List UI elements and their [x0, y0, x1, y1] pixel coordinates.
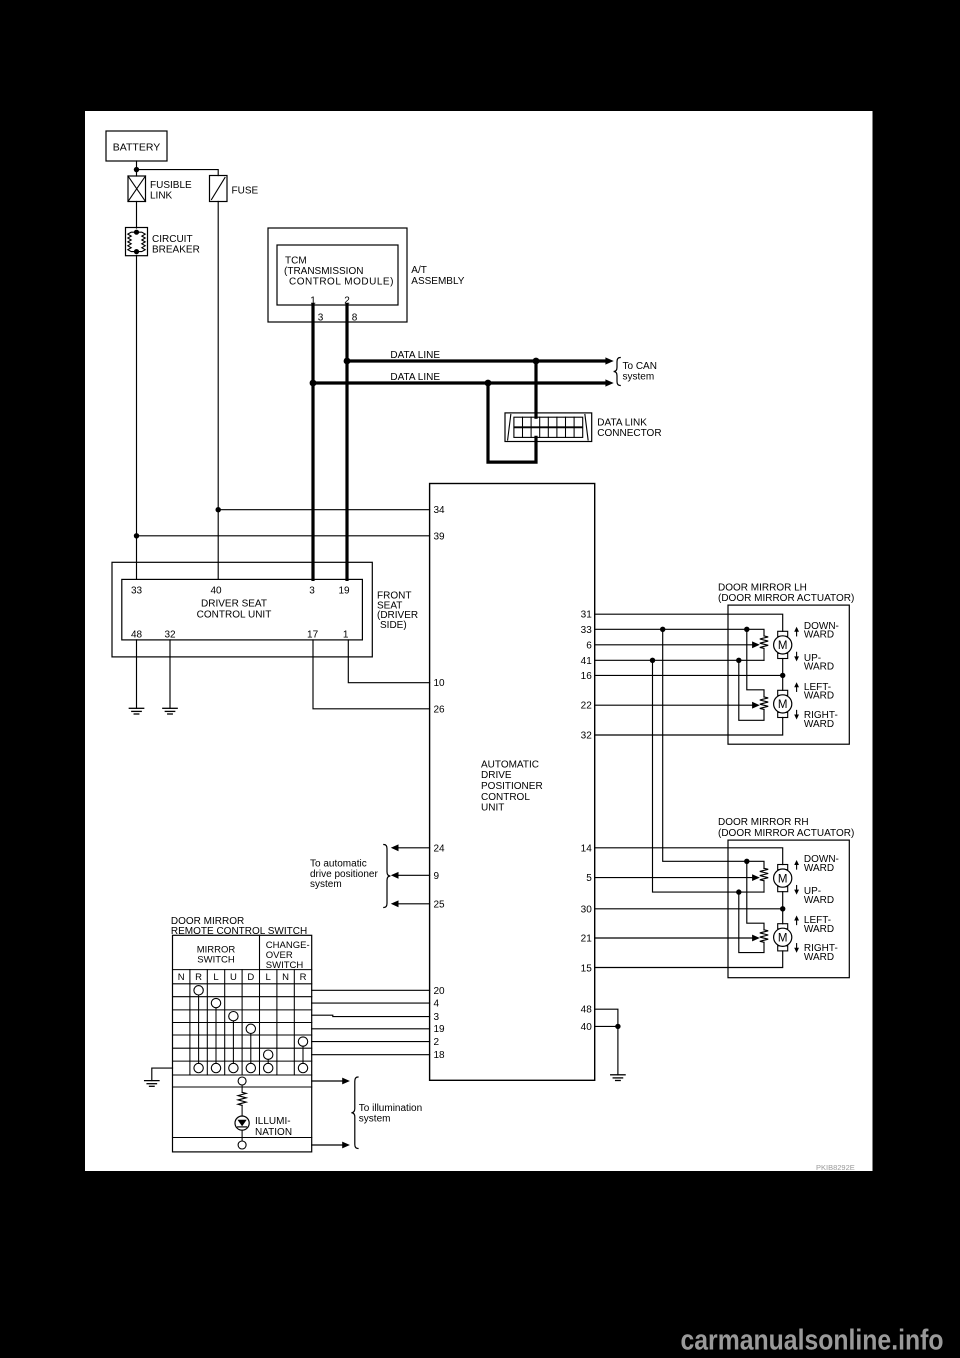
wire seat pin17 to unit pin26	[313, 640, 430, 709]
svg-text:carmanualsonline.info: carmanualsonline.info	[681, 1325, 944, 1357]
node CAN-H at DLC drop	[533, 358, 540, 365]
switch contact column links	[199, 995, 303, 1063]
ground seat 48	[129, 708, 143, 714]
wire LH motors link	[782, 659, 784, 691]
door mirror RH title	[718, 817, 854, 839]
svg-text:9: 9	[434, 871, 440, 882]
svg-text:N: N	[178, 972, 185, 983]
wire switch R2 to unit pin2	[312, 1041, 430, 1043]
svg-text:L: L	[266, 972, 271, 983]
svg-text:ILLUMI-: ILLUMI-	[255, 1116, 291, 1127]
svg-text:19: 19	[338, 585, 350, 596]
svg-text:R: R	[300, 972, 307, 983]
svg-text:17: 17	[307, 630, 319, 641]
wire seat pin32 to ground	[169, 640, 171, 708]
svg-text:40: 40	[210, 585, 222, 596]
svg-text:25: 25	[434, 899, 446, 910]
svg-text:M: M	[778, 873, 788, 885]
LH up-down sensor resistor	[760, 636, 768, 660]
svg-text:L: L	[213, 972, 218, 983]
svg-text:LINK: LINK	[150, 191, 173, 202]
svg-text:32: 32	[581, 731, 593, 742]
node pin33 to RH branch	[660, 627, 665, 632]
switch contact U	[229, 1012, 238, 1021]
svg-text:NATION: NATION	[255, 1127, 292, 1138]
wire unit pin25 arrow	[391, 900, 430, 907]
wire pin16 to LH motors link	[595, 674, 783, 676]
svg-text:FUSIBLE: FUSIBLE	[150, 180, 192, 191]
automatic drive positioner control unit	[430, 484, 595, 1081]
svg-text:33: 33	[131, 585, 143, 596]
svg-text:WARD: WARD	[804, 895, 834, 906]
svg-text:CIRCUIT: CIRCUIT	[152, 234, 193, 245]
wire pin31 to LH up-down motor	[595, 614, 783, 631]
svg-text:24: 24	[434, 843, 446, 854]
svg-text:UNIT: UNIT	[481, 803, 504, 814]
svg-text:(DOOR MIRROR ACTUATOR): (DOOR MIRROR ACTUATOR)	[718, 593, 854, 604]
node LH motors link	[780, 673, 785, 678]
svg-text:DRIVER SEAT: DRIVER SEAT	[201, 599, 267, 610]
svg-text:33: 33	[581, 625, 593, 636]
RH downward label	[804, 854, 839, 874]
svg-text:ASSEMBLY: ASSEMBLY	[411, 276, 464, 287]
node unit ground junction	[615, 1024, 620, 1029]
door mirror remote control switch box	[173, 935, 312, 1152]
svg-text:2: 2	[434, 1037, 440, 1048]
svg-text:DATA LINE: DATA LINE	[390, 350, 440, 361]
fuse	[210, 176, 259, 202]
svg-text:6: 6	[586, 640, 592, 651]
wire LH lr-sensor top branch	[747, 629, 764, 697]
front seat label	[377, 590, 418, 631]
svg-text:15: 15	[581, 964, 593, 975]
svg-text:3: 3	[309, 585, 315, 596]
svg-text:WARD: WARD	[804, 952, 834, 963]
svg-text:To CAN: To CAN	[623, 361, 657, 372]
wire pin41 branch to RH sensor bottom	[653, 660, 765, 892]
wire pin33 branch to RH sensor top	[663, 629, 764, 868]
switch contact R	[194, 986, 203, 995]
wire RH motors link	[782, 892, 784, 924]
RH left-right motor	[774, 924, 792, 951]
wire switch U to unit pin3	[312, 1015, 430, 1016]
svg-text:DOOR MIRROR LH: DOOR MIRROR LH	[718, 582, 807, 593]
node pin41 branch	[736, 658, 741, 663]
wire pin33 to LH sensor top	[595, 629, 764, 636]
svg-text:(DOOR MIRROR ACTUATOR): (DOOR MIRROR ACTUATOR)	[718, 828, 854, 839]
wire unit pin39	[137, 535, 430, 537]
svg-text:M: M	[778, 640, 788, 652]
svg-text:48: 48	[131, 630, 143, 641]
door mirror remote control switch title	[171, 916, 307, 937]
LH leftward arrow	[794, 682, 799, 691]
svg-text:10: 10	[434, 678, 446, 689]
RH up-down sensor resistor	[760, 868, 768, 892]
door mirror RH box	[728, 840, 849, 978]
RH upward label	[804, 886, 834, 906]
svg-text:WARD: WARD	[804, 691, 834, 702]
wire LH lr-sensor bottom branch	[739, 660, 764, 720]
svg-text:SWITCH: SWITCH	[197, 955, 235, 966]
svg-text:4: 4	[434, 999, 440, 1010]
svg-text:N: N	[282, 972, 289, 983]
svg-text:BREAKER: BREAKER	[152, 245, 200, 256]
RH upward arrow	[794, 886, 799, 895]
ground seat 32	[163, 708, 177, 714]
svg-text:system: system	[310, 879, 342, 890]
wire CAN-L data line	[313, 372, 614, 387]
svg-text:WARD: WARD	[804, 863, 834, 874]
svg-text:3: 3	[434, 1012, 440, 1023]
svg-text:41: 41	[581, 656, 593, 667]
wire CAN-H drop to data link connector	[534, 361, 537, 417]
node battery junction	[134, 167, 139, 172]
svg-text:WARD: WARD	[804, 662, 834, 673]
RH rightward arrow	[794, 944, 799, 953]
svg-text:PKIB8292E: PKIB8292E	[816, 1163, 855, 1172]
svg-text:To illumination: To illumination	[359, 1103, 422, 1114]
svg-text:19: 19	[434, 1024, 446, 1035]
illumination top terminal	[238, 1077, 246, 1085]
LH rightward label	[804, 710, 838, 730]
svg-text:BATTERY: BATTERY	[113, 142, 160, 154]
wire unit pin40 to ground	[595, 1025, 618, 1027]
driver seat control unit	[112, 562, 372, 657]
wire switch common to ground	[152, 1068, 173, 1081]
switch contact R2	[298, 1037, 307, 1046]
wire pin30 to RH motors link	[595, 908, 783, 910]
svg-text:16: 16	[581, 671, 593, 682]
svg-text:18: 18	[434, 1050, 446, 1061]
node pin39 junction	[134, 533, 139, 538]
wire RH left-right motor to pin15	[595, 951, 783, 968]
node pin33 branch	[744, 627, 749, 632]
wire LH left-right motor to pin32	[595, 718, 783, 736]
wire battery to junction	[136, 161, 138, 176]
wire TCM pin2 CAN line to seat pin 19	[345, 305, 348, 579]
wire switch L2 to unit pin18	[312, 1054, 430, 1056]
svg-text:DATA LINK: DATA LINK	[597, 418, 647, 429]
svg-text:SIDE): SIDE)	[380, 620, 407, 631]
svg-text:DRIVE: DRIVE	[481, 770, 512, 781]
svg-text:39: 39	[434, 531, 446, 542]
svg-text:8: 8	[352, 312, 358, 323]
RH leftward arrow	[794, 916, 799, 925]
RH downward arrow	[794, 860, 799, 869]
wire unit pin24 arrow	[391, 844, 430, 851]
switch contact D	[246, 1024, 255, 1033]
svg-text:WARD: WARD	[804, 924, 834, 935]
LH leftward label	[804, 682, 834, 702]
svg-text:TCM: TCM	[285, 255, 307, 266]
wire pin41 to LH sensor bottom	[595, 659, 764, 661]
wire CAN-L loop to data link connector	[488, 383, 536, 462]
illumination lamp	[235, 1116, 292, 1138]
wire CAN-H data line	[347, 350, 614, 365]
svg-text:30: 30	[581, 904, 593, 915]
RH leftward label	[804, 915, 834, 935]
svg-text:WARD: WARD	[804, 719, 834, 730]
svg-text:CONTROL MODULE): CONTROL MODULE)	[289, 277, 394, 288]
svg-text:DATA LINE: DATA LINE	[390, 372, 440, 383]
wire pin21 wiper arrow	[595, 935, 760, 942]
circuit breaker	[126, 228, 200, 256]
wire fusible link to circuit breaker	[136, 202, 138, 229]
svg-text:31: 31	[581, 610, 593, 621]
wire switch R to unit pin20	[312, 989, 430, 991]
wire pin5 wiper arrow	[595, 874, 760, 881]
svg-text:20: 20	[434, 986, 446, 997]
svg-text:(TRANSMISSION: (TRANSMISSION	[284, 266, 363, 277]
node CAN-H at TCM drop	[344, 358, 351, 365]
wire fuse to seat unit pin 40	[217, 202, 219, 580]
TCM A/T assembly	[268, 228, 465, 323]
node CAN-L at TCM drop	[310, 380, 317, 387]
svg-text:48: 48	[581, 1005, 593, 1016]
LH upward label	[804, 653, 834, 673]
illumination section separators	[173, 1087, 312, 1138]
svg-text:1: 1	[343, 630, 349, 641]
svg-text:40: 40	[581, 1022, 593, 1033]
svg-text:32: 32	[164, 630, 176, 641]
door mirror LH box	[728, 605, 849, 744]
switch contact L	[211, 998, 220, 1007]
svg-text:DOOR MIRROR RH: DOOR MIRROR RH	[718, 817, 809, 828]
svg-text:AUTOMATIC: AUTOMATIC	[481, 759, 539, 770]
wire illumination bottom to arrow	[312, 1142, 350, 1149]
svg-text:26: 26	[434, 704, 446, 715]
svg-text:M: M	[778, 933, 788, 945]
svg-text:5: 5	[586, 873, 592, 884]
RH up-down motor	[774, 865, 792, 892]
svg-text:D: D	[247, 972, 254, 983]
svg-text:A/T: A/T	[411, 265, 427, 276]
wire switch L to unit pin4	[312, 1002, 430, 1004]
node pin34 junction	[216, 507, 221, 512]
wire junction to fuse	[137, 170, 219, 176]
wire pin14 to RH up-down motor	[595, 848, 783, 865]
svg-text:system: system	[623, 371, 655, 382]
RH rightward label	[804, 943, 838, 963]
wire unit pin9 arrow	[391, 872, 430, 879]
svg-text:system: system	[359, 1113, 391, 1124]
door mirror LH title	[718, 582, 854, 604]
wire unit pin34	[218, 509, 429, 511]
ground unit	[611, 1075, 625, 1081]
RH left-right sensor resistor	[760, 930, 768, 943]
svg-text:CONTROL UNIT: CONTROL UNIT	[197, 609, 272, 620]
LH left-right sensor resistor	[760, 697, 768, 710]
svg-text:21: 21	[581, 934, 593, 945]
illumination bottom wire and terminal	[238, 1130, 246, 1149]
svg-text:R: R	[195, 972, 202, 983]
battery	[106, 131, 167, 161]
wire illumination top to arrow	[312, 1078, 350, 1085]
LH rightward arrow	[794, 710, 799, 719]
to automatic drive positioner system	[310, 845, 390, 908]
svg-text:U: U	[230, 972, 237, 983]
wire seat pin48 to ground	[136, 640, 138, 708]
svg-text:CONNECTOR: CONNECTOR	[597, 428, 661, 439]
To CAN system	[614, 358, 657, 386]
wire pin6 wiper arrow	[595, 641, 760, 648]
node RH motors link	[780, 906, 785, 911]
LH upward arrow	[794, 652, 799, 661]
node RH sensor top branch	[744, 859, 749, 864]
wire circuit breaker to seat unit pin 33	[136, 256, 138, 580]
svg-text:POSITIONER: POSITIONER	[481, 781, 543, 792]
wire RH lr-sensor bottom branch	[739, 892, 764, 953]
LH downward label	[804, 621, 839, 641]
wire seat pin1 to unit pin10	[348, 640, 429, 683]
svg-text:CONTROL: CONTROL	[481, 792, 530, 803]
to illumination system	[351, 1077, 422, 1149]
LH left-right motor	[774, 690, 792, 717]
svg-text:3: 3	[318, 312, 324, 323]
switch contact L2	[264, 1050, 273, 1059]
ground switch common	[145, 1081, 159, 1087]
LH downward arrow	[794, 627, 799, 636]
svg-text:WARD: WARD	[804, 630, 834, 641]
wire pin22 wiper arrow	[595, 702, 760, 709]
switch common contacts row	[194, 1063, 308, 1072]
svg-text:14: 14	[581, 843, 593, 854]
svg-text:22: 22	[581, 701, 593, 712]
illumination resistor	[238, 1085, 246, 1116]
wire TCM pin1 CAN line to seat pin 3	[311, 305, 314, 579]
wire RH lr-sensor top branch	[747, 861, 764, 930]
node RH sensor bottom branch	[736, 889, 741, 894]
node CAN-L at DLC drop	[485, 380, 492, 387]
fusible link	[128, 176, 192, 202]
svg-text:M: M	[778, 699, 788, 711]
svg-text:34: 34	[434, 505, 446, 516]
svg-text:FUSE: FUSE	[232, 186, 259, 197]
wire unit pin48 to ground	[595, 1009, 618, 1075]
LH up-down motor	[774, 631, 792, 658]
wire switch D to unit pin19	[312, 1028, 430, 1030]
data link connector	[505, 413, 662, 442]
node pin41 to RH branch	[650, 658, 655, 663]
